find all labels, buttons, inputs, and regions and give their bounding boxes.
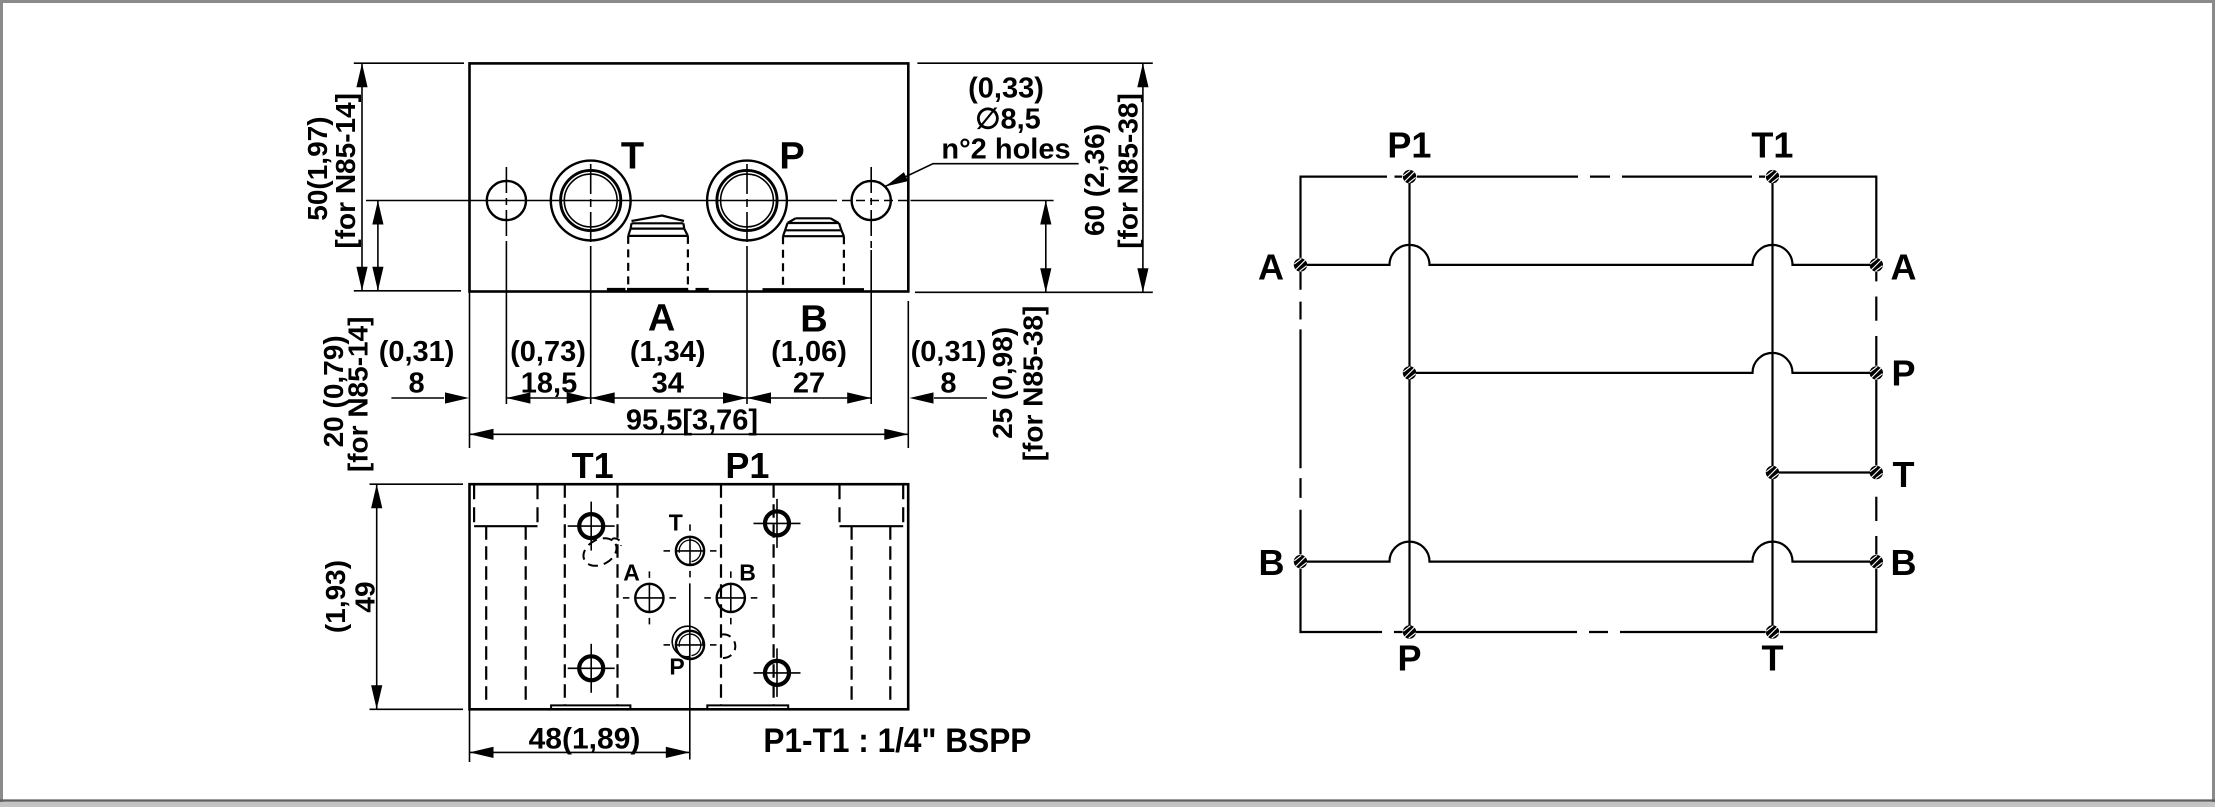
- extension lines below block: [470, 292, 909, 449]
- dimension 50 line: [356, 63, 367, 291]
- svg-text:P1: P1: [725, 445, 769, 486]
- port T bottom view: [664, 524, 717, 577]
- node P bottom: [1403, 625, 1416, 638]
- leader n°2 holes: [885, 164, 1078, 187]
- svg-text:8: 8: [940, 368, 956, 400]
- port A bottom view: [623, 571, 676, 624]
- mounting screw hole bottom-left: [568, 644, 615, 693]
- dimension 49 extension lines: [370, 484, 464, 709]
- svg-text:P: P: [669, 654, 684, 680]
- node P right: [1870, 366, 1883, 379]
- svg-text:T: T: [1762, 638, 1784, 679]
- dimension row: 8 right: [910, 392, 988, 403]
- svg-text:B: B: [1891, 542, 1917, 583]
- svg-text:(0,33): (0,33): [968, 73, 1044, 105]
- svg-text:T: T: [621, 135, 644, 177]
- node A left: [1294, 258, 1307, 271]
- wire P horizontal with hop: [1410, 353, 1877, 373]
- right mounting hole (8.5): [852, 181, 891, 220]
- svg-text:25 (0,98): 25 (0,98): [987, 327, 1018, 439]
- schematic outline top edge: [1301, 176, 1877, 178]
- left slot counterbore: [474, 484, 537, 526]
- svg-text:A: A: [1258, 247, 1284, 288]
- horizontal centerline through ports: [366, 200, 908, 202]
- svg-text:(0,31): (0,31): [911, 336, 987, 368]
- left mounting hole (8.5): [487, 181, 526, 220]
- schematic outline left edge: [1299, 176, 1301, 634]
- svg-text:T: T: [1893, 454, 1915, 495]
- cavity plug B hidden sides (dashed): [783, 236, 844, 289]
- cavity plug A hidden sides (dashed): [628, 236, 688, 290]
- svg-text:A: A: [623, 560, 640, 586]
- schematic outline right edge: [1875, 176, 1877, 634]
- node B right: [1870, 555, 1883, 568]
- svg-text:95,5[3,76]: 95,5[3,76]: [626, 405, 758, 437]
- wire P1 vertical: [1408, 177, 1410, 632]
- port P bottom view: [664, 624, 717, 659]
- svg-text:49: 49: [350, 581, 381, 612]
- dimension row: 18,5: [506, 392, 590, 403]
- front view block outline: [470, 63, 909, 291]
- dimension 49 line: [371, 484, 382, 709]
- node P1 top: [1403, 170, 1416, 183]
- node T1 top: [1766, 170, 1779, 183]
- mounting screw hole bottom-right: [754, 648, 801, 697]
- svg-text:[for N85-14]: [for N85-14]: [330, 93, 361, 249]
- extension line bottom-right: [915, 291, 1153, 293]
- dimension 60 line: [1137, 63, 1148, 292]
- svg-text:[for N85-38]: [for N85-38]: [1113, 93, 1144, 249]
- vertical centerline left hole: [505, 167, 507, 404]
- extension line top-left: [354, 62, 464, 64]
- vertical centerline right hole: [870, 167, 872, 404]
- mounting screw hole top-left: [568, 502, 615, 551]
- dimension row: 27: [747, 392, 871, 403]
- wire T stub: [1773, 471, 1877, 473]
- svg-text:(0,73): (0,73): [510, 336, 586, 368]
- hidden drilled passage near P (dashed): [720, 634, 736, 658]
- P1 channel hidden lines: [721, 484, 774, 705]
- svg-text:[for N85-14]: [for N85-14]: [342, 317, 373, 473]
- svg-text:50(1,97): 50(1,97): [302, 116, 333, 220]
- extension line bottom-left: [354, 290, 461, 292]
- extension line top-right: [917, 62, 1152, 64]
- port T circles: [551, 161, 631, 241]
- svg-text:B: B: [800, 299, 827, 341]
- extension line centerline-right: [911, 200, 1054, 202]
- svg-text:A: A: [1891, 247, 1917, 288]
- dimension 20 line: [372, 201, 383, 291]
- svg-text:T: T: [669, 510, 683, 536]
- dimension row: 34: [591, 392, 747, 403]
- svg-text:(1,93): (1,93): [320, 560, 351, 633]
- cavity plug B (solid cap): [783, 218, 844, 236]
- svg-text:(0,31): (0,31): [379, 336, 455, 368]
- seat pad under B: [763, 288, 865, 292]
- dimension 95,5: [470, 429, 909, 440]
- node T bottom: [1766, 625, 1779, 638]
- svg-text:B: B: [739, 560, 756, 586]
- wire B horizontal with hops: [1301, 542, 1877, 562]
- svg-text:∅8,5: ∅8,5: [975, 104, 1041, 136]
- svg-text:A: A: [648, 298, 675, 340]
- svg-text:T1: T1: [572, 445, 614, 486]
- svg-text:P: P: [779, 135, 804, 177]
- node P1-P junction: [1403, 366, 1416, 379]
- vertical centerline port P: [746, 164, 748, 404]
- node T1-T junction: [1766, 466, 1779, 479]
- svg-text:P1: P1: [1387, 125, 1431, 166]
- svg-text:(1,34): (1,34): [630, 336, 706, 368]
- node A right: [1870, 258, 1883, 271]
- left slot through channel (hidden): [486, 526, 526, 704]
- svg-text:T1: T1: [1751, 125, 1793, 166]
- svg-text:B: B: [1259, 542, 1285, 583]
- svg-text:P: P: [1891, 353, 1915, 394]
- T1 channel hidden lines: [565, 484, 618, 705]
- dimension 25 line: [1040, 201, 1051, 293]
- svg-text:[for N85-38]: [for N85-38]: [1017, 306, 1048, 462]
- svg-text:27: 27: [793, 368, 825, 400]
- dimension 48 extension line: [469, 710, 471, 762]
- dimension row: 8 left: [391, 392, 469, 403]
- svg-text:P: P: [1397, 638, 1421, 679]
- node B left: [1294, 555, 1307, 568]
- node T right: [1870, 466, 1883, 479]
- wire A horizontal with hops: [1301, 245, 1877, 265]
- bottom view block outline: [470, 484, 909, 709]
- extension line from P port down: [689, 583, 691, 759]
- port P circles: [707, 161, 787, 241]
- svg-text:60 (2,36): 60 (2,36): [1079, 124, 1110, 236]
- mounting screw hole top-right: [754, 499, 801, 548]
- dimension 48 line: [470, 747, 690, 758]
- right slot counterbore: [840, 484, 904, 526]
- svg-text:(1,06): (1,06): [771, 336, 847, 368]
- seat pads under A: [607, 288, 709, 292]
- seal pads bottom view: [551, 705, 788, 708]
- right slot through channel (hidden): [852, 526, 891, 704]
- svg-text:n°2 holes: n°2 holes: [941, 134, 1070, 166]
- wire T1 vertical: [1771, 177, 1773, 632]
- svg-text:34: 34: [652, 368, 684, 400]
- svg-text:P1-T1 : 1/4" BSPP: P1-T1 : 1/4" BSPP: [763, 722, 1031, 760]
- svg-text:48(1,89): 48(1,89): [529, 723, 641, 756]
- schematic outline bottom edge: [1301, 631, 1877, 633]
- cavity plug A (solid cap): [628, 216, 688, 236]
- svg-text:8: 8: [409, 368, 425, 400]
- vertical centerline port T: [590, 164, 592, 404]
- svg-text:18,5: 18,5: [521, 368, 577, 400]
- port B bottom view: [704, 571, 757, 624]
- hidden drilled passage near T1 (dashed): [579, 533, 622, 572]
